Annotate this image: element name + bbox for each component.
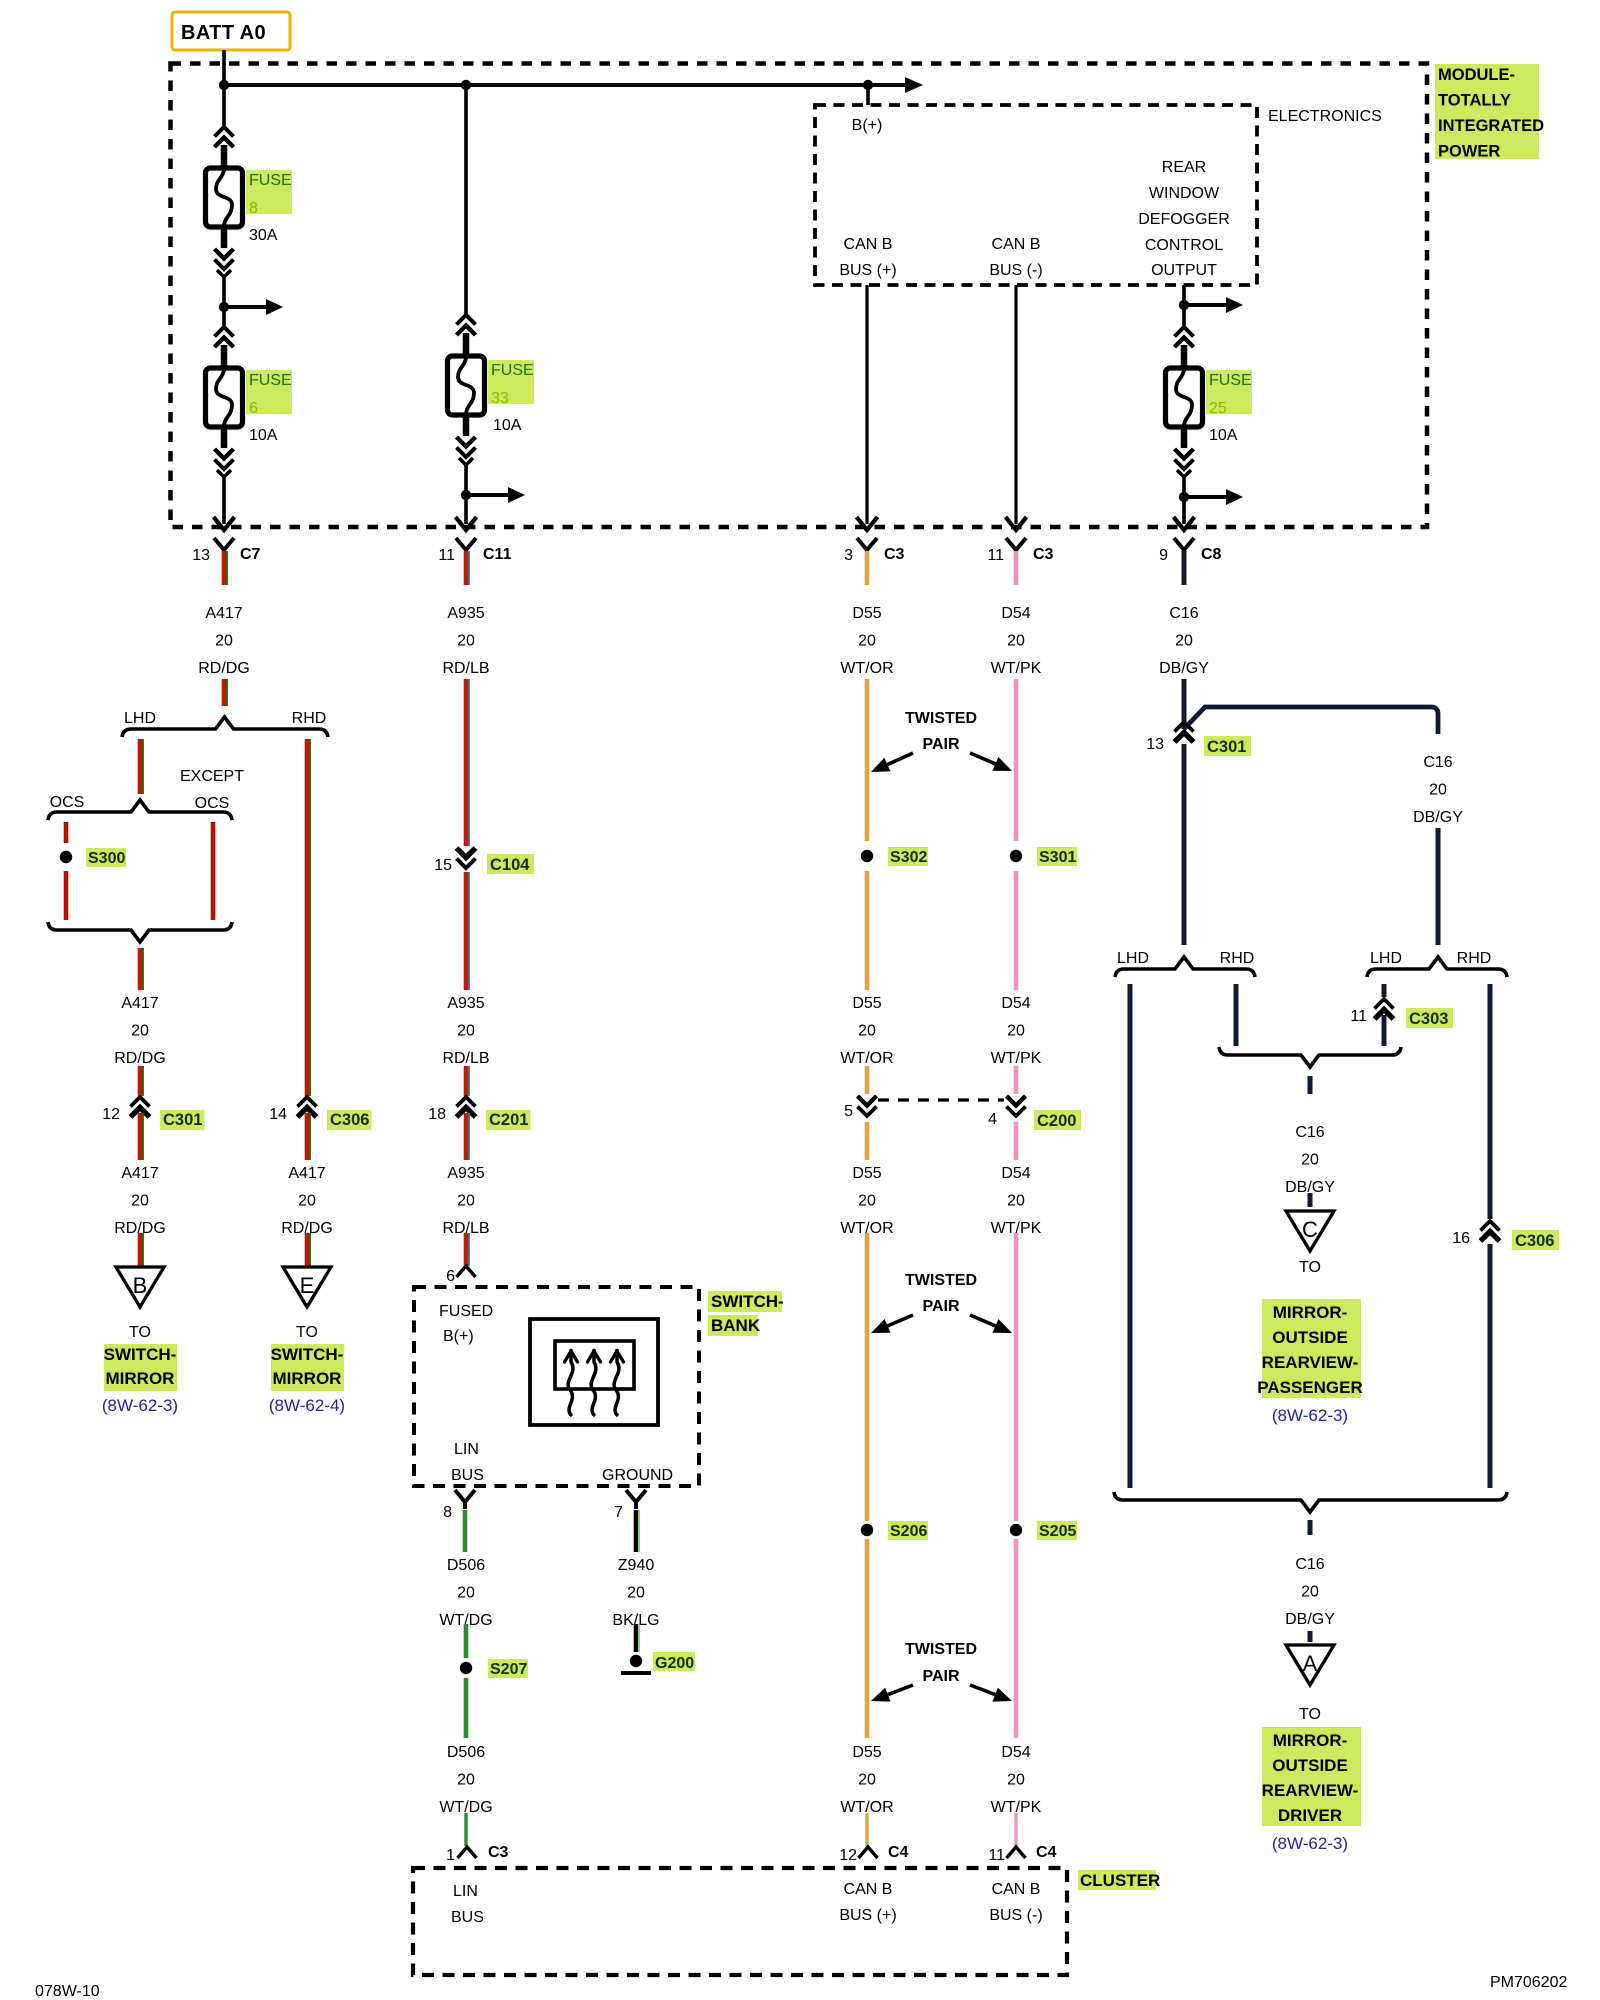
svg-text:20: 20 <box>457 1585 475 1602</box>
svg-text:E: E <box>300 1273 315 1298</box>
svg-text:16: 16 <box>1452 1230 1470 1247</box>
wire - fuse 25 to junction 2 <box>1182 477 1186 497</box>
svg-text:RD/DG: RD/DG <box>198 660 250 677</box>
connector C7 pin 13 <box>192 538 260 564</box>
svg-text:D55: D55 <box>852 605 881 622</box>
svg-text:REARVIEW-: REARVIEW- <box>1262 1781 1359 1800</box>
wire C16 stub below C8 <box>1182 551 1187 585</box>
value label 30A <box>249 227 278 244</box>
svg-text:PASSENGER: PASSENGER <box>1257 1378 1363 1397</box>
svg-text:FUSE: FUSE <box>249 172 292 189</box>
wire label C16 20 DB/GY (right branch) <box>1413 754 1463 826</box>
connector C3 pin 11 <box>987 538 1053 564</box>
svg-text:RD/DG: RD/DG <box>114 1050 166 1067</box>
svg-text:WT/PK: WT/PK <box>991 1050 1042 1067</box>
node - bus junction at B(+) <box>863 80 873 90</box>
svg-text:D54: D54 <box>1001 605 1030 622</box>
svg-text:20: 20 <box>627 1585 645 1602</box>
pin arrow at module boundary (C3 pin 11) <box>1006 517 1027 530</box>
svg-text:BANK: BANK <box>711 1316 761 1335</box>
wire D506 above S207 <box>464 1624 469 1658</box>
svg-text:RHD: RHD <box>292 710 327 727</box>
svg-text:A935: A935 <box>447 605 484 622</box>
connector C3 pin 3 <box>844 538 904 564</box>
svg-text:S207: S207 <box>490 1661 527 1678</box>
svg-text:S301: S301 <box>1039 849 1076 866</box>
svg-text:B(+): B(+) <box>443 1328 474 1345</box>
svg-text:TWISTED: TWISTED <box>905 1641 977 1658</box>
wire A417 above LHD/RHD brace <box>224 679 227 706</box>
svg-text:13: 13 <box>1146 736 1164 753</box>
svg-text:13: 13 <box>192 547 210 564</box>
connector C4 pin 11 (cluster) <box>988 1844 1056 1864</box>
svg-text:C4: C4 <box>888 1844 909 1861</box>
wire A417 LHD leg <box>140 739 143 794</box>
svg-text:TO: TO <box>1299 1259 1321 1276</box>
svg-text:14: 14 <box>269 1106 287 1123</box>
svg-text:D506: D506 <box>447 1744 485 1761</box>
svg-text:ELECTRONICS: ELECTRONICS <box>1268 108 1382 125</box>
svg-text:9: 9 <box>1159 547 1168 564</box>
connector pin 8 below switch bank <box>443 1490 475 1521</box>
wire C16 right branch <box>1436 828 1441 945</box>
wire D55 below S206 <box>865 1539 870 1738</box>
wire A935 to switch bank <box>466 1233 469 1266</box>
connector C200 pin 4 <box>988 1096 1081 1130</box>
svg-text:MODULE-: MODULE- <box>1438 66 1515 84</box>
svg-text:C: C <box>1302 1217 1318 1242</box>
wire D55 below S302 <box>865 871 870 990</box>
wire C16 below C301 <box>1182 744 1187 945</box>
svg-text:TO: TO <box>296 1324 318 1341</box>
svg-text:REARVIEW-: REARVIEW- <box>1262 1353 1359 1372</box>
splice S207 <box>460 1659 528 1678</box>
connector C200 pin 5 <box>844 1096 876 1120</box>
wire A935 below C104 <box>466 872 469 990</box>
wire C16 RHD leg (short) <box>1234 984 1239 1046</box>
connector pin 6 into switch bank <box>446 1266 475 1285</box>
block - CLUSTER (dashed) <box>413 1868 1067 1975</box>
off-page connector C <box>1286 1211 1334 1251</box>
svg-text:C11: C11 <box>483 546 512 563</box>
svg-text:12: 12 <box>839 1847 857 1864</box>
wire C16 to triangle C <box>1308 1193 1313 1207</box>
wire - junction to connector C8 <box>1182 497 1186 524</box>
svg-text:OCS: OCS <box>50 794 85 811</box>
wire label D54 20 WT/PK (1) <box>991 605 1042 677</box>
svg-text:20: 20 <box>457 1772 475 1789</box>
svg-text:11: 11 <box>987 547 1004 564</box>
wire C16 LHD leg above C303 <box>1382 984 1387 997</box>
wire Z940 to ground <box>636 1624 639 1652</box>
wire A935 above C104 <box>466 679 469 846</box>
svg-text:20: 20 <box>457 633 475 650</box>
svg-text:C16: C16 <box>1423 754 1452 771</box>
svg-text:20: 20 <box>131 1023 149 1040</box>
svg-text:TO: TO <box>1299 1706 1321 1723</box>
wire label C16 20 DB/GY (driver) <box>1285 1556 1335 1628</box>
svg-text:20: 20 <box>1301 1584 1319 1601</box>
brace - LHD/RHD split (right C16) <box>1367 957 1507 977</box>
svg-text:FUSE: FUSE <box>491 362 534 379</box>
wire - bus to fuse 8 <box>222 85 226 128</box>
svg-text:20: 20 <box>131 1193 149 1210</box>
brace - OCS merge <box>48 922 232 942</box>
wire A417 below C301 <box>140 1113 143 1160</box>
pin label GROUND <box>602 1467 673 1484</box>
node - junction with branch arrow above fuse 25 <box>1179 297 1243 313</box>
svg-text:25: 25 <box>1209 400 1227 417</box>
svg-text:(8W-62-4): (8W-62-4) <box>269 1396 345 1415</box>
svg-text:WINDOW: WINDOW <box>1149 185 1220 202</box>
wire - fuse 8 to junction <box>222 276 226 307</box>
wire D55 above S302 <box>865 679 870 841</box>
wire label A935 20 RD/LB (3) <box>442 1165 489 1237</box>
wire D506 stub <box>463 1510 468 1552</box>
wire D54 below S205 <box>1014 1539 1019 1738</box>
wire D506 to cluster <box>464 1813 467 1846</box>
wire label D506 20 WT/DG (2) <box>439 1744 492 1816</box>
wire label D55 20 WT/OR (4) <box>840 1744 893 1816</box>
svg-text:INTEGRATED: INTEGRATED <box>1438 117 1544 135</box>
svg-text:D54: D54 <box>1001 1744 1030 1761</box>
connector pin 7 below switch bank <box>614 1490 646 1521</box>
svg-text:S300: S300 <box>88 850 125 867</box>
wire C16 stub below big merge <box>1308 1520 1313 1535</box>
svg-text:10A: 10A <box>493 417 522 434</box>
arrow to D54 (twisted pair bottom) <box>970 1685 1012 1702</box>
wire D54 mid section <box>1014 1233 1019 1521</box>
wire C16 below C303 <box>1382 1015 1387 1046</box>
svg-text:B(+): B(+) <box>852 117 883 134</box>
svg-text:C3: C3 <box>1033 546 1054 563</box>
connector C3 pin 1 (cluster) <box>446 1844 508 1864</box>
connector C4 pin 12 (cluster) <box>839 1844 908 1864</box>
svg-text:20: 20 <box>298 1193 316 1210</box>
pin arrow at module boundary (C7) <box>214 517 235 530</box>
svg-text:C7: C7 <box>240 546 261 563</box>
node - junction with branch arrow below fuse 33 <box>461 487 525 503</box>
svg-text:EXCEPT: EXCEPT <box>180 768 244 785</box>
svg-text:PAIR: PAIR <box>922 736 959 753</box>
svg-text:FUSE: FUSE <box>1209 372 1252 389</box>
svg-text:20: 20 <box>858 1193 876 1210</box>
wire - junction to fuse 6 <box>222 307 226 328</box>
label FUSE 6 <box>246 370 292 417</box>
wire - battery feed bus A0 <box>224 50 923 93</box>
svg-text:LIN: LIN <box>453 1883 478 1900</box>
svg-text:C8: C8 <box>1201 546 1222 563</box>
wire label A417 20 RD/DG (2) <box>114 995 166 1067</box>
label TO SWITCH-MIRROR (E) <box>269 1324 345 1415</box>
svg-text:CAN B: CAN B <box>992 236 1041 253</box>
svg-text:OUTPUT: OUTPUT <box>1151 262 1217 279</box>
brace - LHD/RHD split (left C16) <box>1115 957 1255 977</box>
wire D55 above C200 <box>865 1066 870 1094</box>
svg-text:D54: D54 <box>1001 995 1030 1012</box>
wire C16 RHD leg (long right) upper <box>1488 984 1493 1219</box>
svg-text:BUS (+): BUS (+) <box>839 262 896 279</box>
label OCS <box>50 794 85 811</box>
svg-text:A: A <box>1303 1651 1318 1676</box>
wire label D55 20 WT/OR (3) <box>840 1165 893 1237</box>
wire label D54 20 WT/PK (2) <box>991 995 1042 1067</box>
svg-text:DB/GY: DB/GY <box>1285 1611 1335 1628</box>
svg-text:TWISTED: TWISTED <box>905 1272 977 1289</box>
svg-text:20: 20 <box>1301 1152 1319 1169</box>
svg-text:BUS (+): BUS (+) <box>839 1907 896 1924</box>
wire Z940 stub <box>636 1510 639 1552</box>
pin label CAN B BUS (-) <box>989 236 1042 279</box>
svg-text:OUTSIDE: OUTSIDE <box>1272 1328 1348 1347</box>
pin label CAN B BUS (-) (cluster) <box>989 1881 1042 1924</box>
fuse F33 <box>448 315 485 465</box>
svg-text:C201: C201 <box>489 1111 528 1129</box>
wire C16 stub below merge <box>1308 1076 1313 1094</box>
svg-text:D54: D54 <box>1001 1165 1030 1182</box>
svg-text:B: B <box>133 1273 148 1298</box>
wire A417 stub below C7 <box>224 551 227 585</box>
wire A935 above C201 <box>466 1066 469 1096</box>
brace - OCS split <box>48 800 232 820</box>
wire label A935 20 RD/LB (1) <box>442 605 489 677</box>
svg-text:C301: C301 <box>163 1111 202 1129</box>
wire - defogger output to junction <box>1182 285 1186 305</box>
wire C16 LHD leg (long left) <box>1128 984 1133 1488</box>
wire A417 OCS leg below splice <box>64 871 69 920</box>
wire D54 below S301 <box>1014 871 1019 990</box>
wire A417 below OCS merge <box>140 948 143 990</box>
svg-text:DRIVER: DRIVER <box>1278 1806 1342 1825</box>
svg-text:20: 20 <box>457 1193 475 1210</box>
svg-text:C306: C306 <box>330 1111 369 1129</box>
svg-text:20: 20 <box>1007 1772 1025 1789</box>
svg-text:WT/OR: WT/OR <box>840 660 893 677</box>
label RHD (brace 2) <box>1457 950 1492 967</box>
wire - CAN B bus (-) inside module <box>1014 285 1017 524</box>
svg-text:D55: D55 <box>852 1165 881 1182</box>
wire D55 below C200 <box>865 1122 870 1160</box>
wire - B(+) stub into electronics <box>866 85 870 105</box>
splice S301 <box>1010 847 1077 866</box>
svg-text:20: 20 <box>457 1023 475 1040</box>
svg-text:18: 18 <box>428 1106 446 1123</box>
svg-text:7: 7 <box>614 1504 623 1521</box>
label SWITCH-BANK <box>708 1291 784 1336</box>
wire label D54 20 WT/PK (3) <box>991 1165 1042 1237</box>
wire A935 below C201 <box>466 1113 469 1160</box>
svg-text:30A: 30A <box>249 227 278 244</box>
svg-text:12: 12 <box>102 1106 120 1123</box>
part number PM706202 <box>1490 1974 1567 1991</box>
svg-text:BUS (-): BUS (-) <box>989 1907 1042 1924</box>
svg-text:8: 8 <box>249 200 258 217</box>
svg-text:6: 6 <box>446 1268 455 1285</box>
svg-text:PAIR: PAIR <box>922 1668 959 1685</box>
svg-text:A935: A935 <box>447 995 484 1012</box>
svg-text:D55: D55 <box>852 995 881 1012</box>
power source label BATT A0 <box>172 12 290 50</box>
wire A417 OCS leg above splice <box>64 822 69 843</box>
pin label CAN B BUS (+) (cluster) <box>839 1881 896 1924</box>
svg-text:C303: C303 <box>1409 1010 1448 1028</box>
node - junction with branch arrow below fuse 25 <box>1179 489 1243 505</box>
off-page connector A <box>1286 1645 1334 1685</box>
label LHD (brace 1) <box>1117 950 1149 967</box>
off-page connector E <box>283 1267 331 1307</box>
svg-text:C200: C200 <box>1037 1112 1076 1130</box>
svg-text:C16: C16 <box>1169 605 1198 622</box>
svg-text:LHD: LHD <box>1370 950 1402 967</box>
connector C303 pin 11 <box>1350 999 1453 1028</box>
svg-text:OCS: OCS <box>195 795 230 812</box>
svg-text:BATT A0: BATT A0 <box>181 22 266 44</box>
svg-text:CONTROL: CONTROL <box>1145 237 1223 254</box>
wire A417 EXCEPT-OCS leg <box>211 822 216 920</box>
module label MODULE-TOTALLY INTEGRATED POWER <box>1435 64 1544 161</box>
wire label A417 20 RD/DG (4) <box>281 1165 333 1237</box>
svg-text:20: 20 <box>1007 633 1025 650</box>
wire label A417 20 RD/DG (1) <box>198 605 250 677</box>
svg-text:(8W-62-3): (8W-62-3) <box>1272 1406 1348 1425</box>
svg-text:S205: S205 <box>1039 1523 1076 1540</box>
svg-text:FUSED: FUSED <box>439 1303 493 1320</box>
svg-text:C16: C16 <box>1295 1556 1324 1573</box>
svg-text:5: 5 <box>844 1103 853 1120</box>
node - bus junction at fuse 8 <box>219 80 229 90</box>
svg-text:20: 20 <box>1175 633 1193 650</box>
svg-text:C104: C104 <box>490 856 530 874</box>
svg-text:11: 11 <box>438 547 455 564</box>
fuse F6 <box>206 327 243 477</box>
brace - LHD/RHD split col1 <box>122 717 328 737</box>
wire - junction to connector C11 <box>464 495 468 524</box>
svg-text:8: 8 <box>443 1504 452 1521</box>
brace - C16 merge (passenger) <box>1219 1047 1401 1067</box>
wire - fuse 33 to junction <box>464 465 468 495</box>
wire label C16 20 DB/GY (1) <box>1159 605 1209 677</box>
svg-text:LHD: LHD <box>1117 950 1149 967</box>
svg-text:4: 4 <box>988 1111 997 1128</box>
svg-text:CLUSTER: CLUSTER <box>1080 1871 1160 1890</box>
sheet number 078W-10 <box>35 1983 100 2000</box>
ground G200 <box>621 1652 695 1673</box>
connector C301 pin 13 <box>1146 722 1251 756</box>
svg-text:CAN B: CAN B <box>992 1881 1041 1898</box>
svg-text:TWISTED: TWISTED <box>905 710 977 727</box>
wire label C16 20 DB/GY (passenger) <box>1285 1124 1335 1196</box>
wire D54 to cluster <box>1014 1813 1017 1846</box>
svg-text:MIRROR: MIRROR <box>273 1369 342 1388</box>
svg-text:LHD: LHD <box>124 710 156 727</box>
svg-text:10A: 10A <box>1209 427 1238 444</box>
svg-text:RHD: RHD <box>1457 950 1492 967</box>
module - Totally Integrated Power Module boundary (dashed) <box>171 64 1428 528</box>
svg-text:DB/GY: DB/GY <box>1159 660 1209 677</box>
svg-text:WT/OR: WT/OR <box>840 1050 893 1067</box>
svg-text:20: 20 <box>858 1772 876 1789</box>
svg-text:DB/GY: DB/GY <box>1413 809 1463 826</box>
svg-text:10A: 10A <box>249 427 278 444</box>
svg-text:SWITCH-: SWITCH- <box>104 1345 177 1364</box>
svg-text:C3: C3 <box>884 546 905 563</box>
svg-text:MIRROR-: MIRROR- <box>1273 1303 1348 1322</box>
svg-text:33: 33 <box>491 390 509 407</box>
node - junction with branch arrow below fuse 8 <box>219 299 283 315</box>
wire C16 RHD leg (long right) lower <box>1488 1244 1493 1488</box>
svg-text:RD/LB: RD/LB <box>442 1050 489 1067</box>
svg-text:POWER: POWER <box>1438 143 1500 161</box>
fuse F8 <box>206 127 243 277</box>
label FUSE 8 <box>246 170 292 217</box>
svg-text:SWITCH-: SWITCH- <box>271 1345 344 1364</box>
svg-text:C301: C301 <box>1207 738 1246 756</box>
pin label LIN BUS (cluster) <box>451 1883 484 1926</box>
pin arrow at module boundary (C11) <box>456 517 477 530</box>
wire A417 above C301 <box>140 1066 143 1096</box>
svg-text:078W-10: 078W-10 <box>35 1983 100 2000</box>
svg-text:CAN B: CAN B <box>844 1881 893 1898</box>
pin label FUSED B(+) <box>439 1303 493 1345</box>
wire - CAN B bus (+) inside module <box>865 285 868 524</box>
label FUSE 33 <box>488 360 534 407</box>
svg-text:OUTSIDE: OUTSIDE <box>1272 1756 1348 1775</box>
svg-text:LIN: LIN <box>454 1441 479 1458</box>
wire label D54 20 WT/PK (4) <box>991 1744 1042 1816</box>
svg-text:GROUND: GROUND <box>602 1467 673 1484</box>
wire C16 to triangle A <box>1308 1631 1313 1642</box>
wire A417 to triangle E <box>307 1233 310 1267</box>
svg-text:20: 20 <box>215 633 233 650</box>
svg-text:6: 6 <box>249 400 258 417</box>
label TWISTED PAIR (middle) <box>905 1272 977 1315</box>
wire A417 RHD leg <box>307 739 310 1096</box>
svg-text:WT/PK: WT/PK <box>991 660 1042 677</box>
svg-text:D55: D55 <box>852 1744 881 1761</box>
wire label D506 20 WT/DG (1) <box>439 1557 492 1629</box>
wire D55 stub below C3 pin 3 <box>865 551 870 585</box>
connector C306 pin 14 <box>269 1097 371 1130</box>
svg-text:20: 20 <box>858 633 876 650</box>
label FUSE 25 <box>1206 370 1252 417</box>
svg-text:1: 1 <box>446 1847 455 1864</box>
svg-text:D506: D506 <box>447 1557 485 1574</box>
wire - C16 branch to right (bend) <box>1184 707 1438 734</box>
svg-text:11: 11 <box>988 1847 1005 1864</box>
svg-text:PAIR: PAIR <box>922 1298 959 1315</box>
arrow to D55 (twisted pair top) <box>871 753 913 772</box>
label TWISTED PAIR (top) <box>905 710 977 753</box>
wire - fuse 6 to connector C7 <box>222 477 226 524</box>
component - rear window defogger grid symbol <box>530 1319 658 1425</box>
svg-text:BUS: BUS <box>451 1467 484 1484</box>
wire D54 below C200 <box>1014 1122 1019 1160</box>
wire - bus to fuse 33 <box>464 85 468 316</box>
wire D54 above C200 <box>1014 1066 1019 1094</box>
wire - junction to fuse 25 <box>1182 305 1186 328</box>
arrow to D55 (twisted pair bottom) <box>871 1685 913 1702</box>
svg-text:REAR: REAR <box>1162 159 1206 176</box>
svg-text:C16: C16 <box>1295 1124 1324 1141</box>
wire D55 to cluster <box>865 1813 868 1846</box>
svg-text:FUSE: FUSE <box>249 372 292 389</box>
svg-text:RD/LB: RD/LB <box>442 660 489 677</box>
wire label Z940 20 BK/LG <box>612 1557 659 1629</box>
svg-text:3: 3 <box>844 547 853 564</box>
svg-text:A417: A417 <box>288 1165 325 1182</box>
arrow to D55 (twisted pair middle) <box>871 1315 913 1333</box>
value label 10A <box>249 427 278 444</box>
